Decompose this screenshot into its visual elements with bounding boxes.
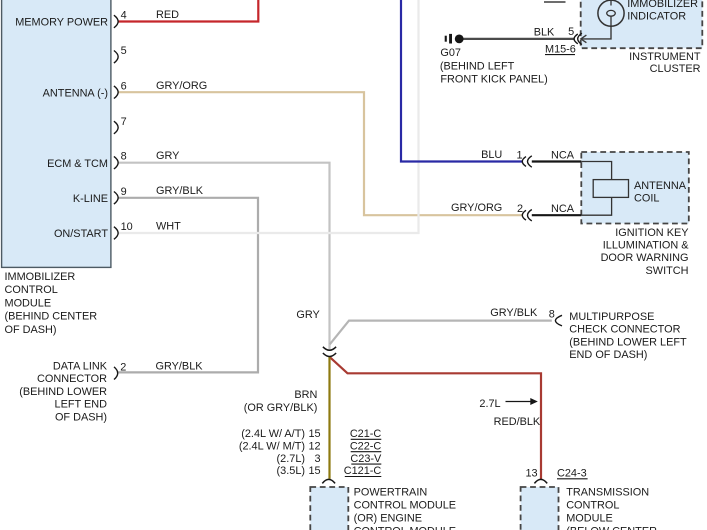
svg-text:GRY/BLK: GRY/BLK xyxy=(490,307,538,319)
svg-text:2: 2 xyxy=(517,203,523,215)
svg-text:ANTENNA: ANTENNA xyxy=(634,180,687,192)
svg-text:ON/START: ON/START xyxy=(54,228,108,240)
svg-text:MODULE: MODULE xyxy=(566,513,613,525)
svg-text:1: 1 xyxy=(517,149,523,161)
svg-text:RED/BLK: RED/BLK xyxy=(494,416,541,428)
svg-text:G07: G07 xyxy=(440,47,461,59)
svg-text:(2.4L W/ M/T): (2.4L W/ M/T) xyxy=(239,440,305,452)
svg-text:6: 6 xyxy=(121,80,127,92)
svg-text:INDICATOR: INDICATOR xyxy=(627,11,686,23)
svg-text:BLU: BLU xyxy=(481,149,502,161)
svg-text:RED: RED xyxy=(156,9,179,21)
svg-text:13: 13 xyxy=(525,467,537,479)
svg-text:GRY: GRY xyxy=(156,150,180,162)
svg-text:(BEHIND CENTER: (BEHIND CENTER xyxy=(5,311,98,323)
svg-text:GRY/ORG: GRY/ORG xyxy=(451,202,502,214)
svg-text:GRY/ORG: GRY/ORG xyxy=(156,80,207,92)
svg-text:WHT: WHT xyxy=(156,221,181,233)
svg-text:CHECK CONNECTOR: CHECK CONNECTOR xyxy=(569,324,680,336)
svg-text:(OR GRY/BLK): (OR GRY/BLK) xyxy=(244,402,318,414)
svg-text:COIL: COIL xyxy=(634,193,659,205)
svg-text:8: 8 xyxy=(121,151,127,163)
svg-text:10: 10 xyxy=(121,221,133,233)
svg-text:(2.4L W/ A/T): (2.4L W/ A/T) xyxy=(241,428,305,440)
svg-text:OF DASH): OF DASH) xyxy=(5,324,57,336)
svg-text:NCA: NCA xyxy=(551,203,575,215)
svg-text:C121-C: C121-C xyxy=(344,465,382,477)
svg-text:M15-6: M15-6 xyxy=(545,43,576,55)
svg-text:(BEHIND LOWER LEFT: (BEHIND LOWER LEFT xyxy=(569,336,687,348)
svg-text:5: 5 xyxy=(568,26,574,38)
svg-text:OF DASH): OF DASH) xyxy=(55,411,107,423)
svg-text:MULTIPURPOSE: MULTIPURPOSE xyxy=(569,311,654,323)
svg-text:SWITCH: SWITCH xyxy=(646,265,689,277)
svg-text:CONTROL: CONTROL xyxy=(5,284,58,296)
svg-text:CONTROL: CONTROL xyxy=(566,500,619,512)
svg-text:IGNITION KEY: IGNITION KEY xyxy=(615,227,689,239)
svg-text:CLUSTER: CLUSTER xyxy=(650,63,701,75)
svg-text:(BEHIND LOWER: (BEHIND LOWER xyxy=(19,386,107,398)
svg-text:4: 4 xyxy=(121,10,127,22)
svg-text:TRANSMISSION: TRANSMISSION xyxy=(566,487,649,499)
svg-text:END OF DASH): END OF DASH) xyxy=(569,349,647,361)
svg-text:(BEHIND LEFT: (BEHIND LEFT xyxy=(440,60,515,72)
svg-text:15: 15 xyxy=(308,428,320,440)
svg-text:CONTROL MODULE: CONTROL MODULE xyxy=(354,526,456,530)
svg-text:(2.7L): (2.7L) xyxy=(277,453,305,465)
svg-text:(OR) ENGINE: (OR) ENGINE xyxy=(354,513,422,525)
svg-text:CONTROL MODULE: CONTROL MODULE xyxy=(354,500,456,512)
svg-text:C22-C: C22-C xyxy=(350,440,382,452)
svg-text:CONNECTOR: CONNECTOR xyxy=(37,373,107,385)
svg-text:DATA LINK: DATA LINK xyxy=(53,360,108,372)
svg-text:8: 8 xyxy=(549,309,555,321)
svg-text:2.7L: 2.7L xyxy=(479,398,500,410)
svg-text:ANTENNA (-): ANTENNA (-) xyxy=(43,88,108,100)
svg-text:C21-C: C21-C xyxy=(350,428,382,440)
svg-text:ILLUMINATION &: ILLUMINATION & xyxy=(603,240,689,252)
svg-text:FRONT KICK PANEL): FRONT KICK PANEL) xyxy=(440,73,547,85)
svg-text:12: 12 xyxy=(308,440,320,452)
svg-text:C23-V: C23-V xyxy=(350,453,382,465)
svg-text:IMMOBILIZER: IMMOBILIZER xyxy=(5,271,76,283)
svg-text:MODULE: MODULE xyxy=(5,297,52,309)
svg-text:3: 3 xyxy=(315,453,321,465)
svg-text:2: 2 xyxy=(120,361,126,373)
svg-text:K-LINE: K-LINE xyxy=(73,193,108,205)
svg-text:DOOR WARNING: DOOR WARNING xyxy=(601,252,689,264)
svg-text:9: 9 xyxy=(121,186,127,198)
svg-text:INSTRUMENT: INSTRUMENT xyxy=(629,51,701,63)
svg-text:BRN: BRN xyxy=(294,389,317,401)
svg-text:ECM & TCM: ECM & TCM xyxy=(47,158,108,170)
svg-text:C24-3: C24-3 xyxy=(557,467,587,479)
svg-text:MEMORY POWER: MEMORY POWER xyxy=(15,17,108,29)
svg-text:NCA: NCA xyxy=(551,149,575,161)
svg-text:IMMOBILIZER: IMMOBILIZER xyxy=(627,0,698,10)
svg-text:GRY/BLK: GRY/BLK xyxy=(156,360,204,372)
svg-text:GRY: GRY xyxy=(296,309,320,321)
svg-text:(BELOW CENTER: (BELOW CENTER xyxy=(566,526,657,530)
svg-text:LEFT END: LEFT END xyxy=(55,399,108,411)
svg-text:POWERTRAIN: POWERTRAIN xyxy=(354,487,428,499)
svg-text:GRY/BLK: GRY/BLK xyxy=(156,185,204,197)
svg-text:7: 7 xyxy=(121,116,127,128)
svg-text:15: 15 xyxy=(308,465,320,477)
svg-text:5: 5 xyxy=(121,45,127,57)
svg-text:(3.5L): (3.5L) xyxy=(277,465,305,477)
svg-text:BLK: BLK xyxy=(534,26,555,38)
